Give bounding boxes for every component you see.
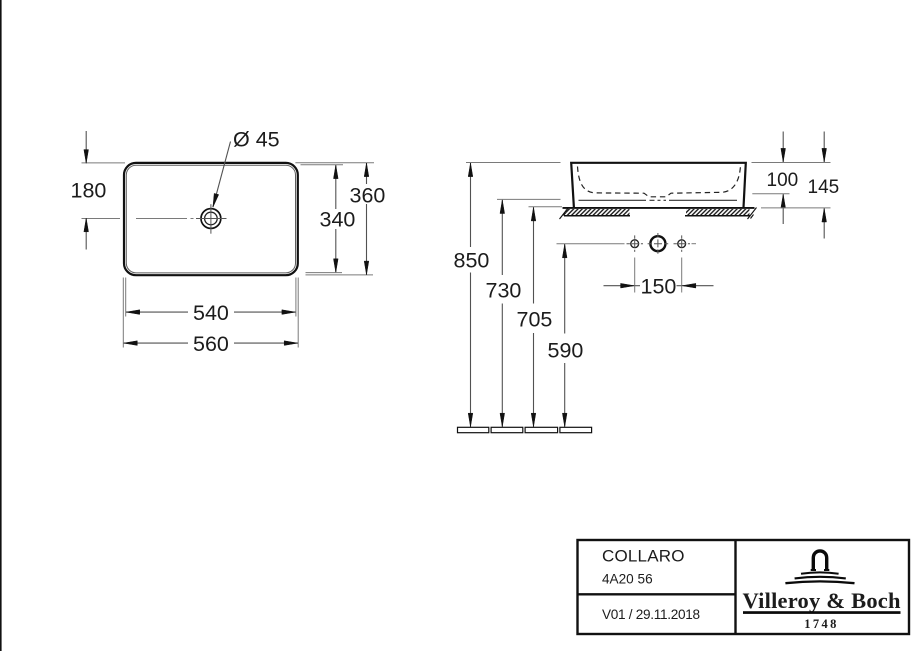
dimension 340 extension line bottom <box>306 272 343 274</box>
dimension 340 extension line top <box>301 164 344 166</box>
dimension 560 extension line right <box>297 278 299 348</box>
dimension 540 dim line left segment with arrow <box>126 311 188 313</box>
tap hole right outer dash <box>692 243 697 245</box>
dimension 150 extension line left <box>634 258 636 293</box>
drain hole inner circle <box>205 212 218 225</box>
mounting holes centerline left <box>557 243 625 245</box>
logo underline <box>743 611 901 614</box>
basin inner rim line (top view) <box>126 165 295 273</box>
dimension 100 top arrow <box>782 132 784 163</box>
svg-text:360: 360 <box>350 183 386 207</box>
title block horizontal divider <box>578 593 736 595</box>
svg-text:540: 540 <box>193 301 229 325</box>
dimension 850 dim line upper segment with arrow <box>470 163 472 247</box>
dimension 705 dim line lower segment with arrow <box>533 333 535 427</box>
dimension 150 left arrow <box>604 285 635 287</box>
tap hole center circle <box>650 236 665 251</box>
dimension 850 dim line lower segment with arrow <box>470 273 472 427</box>
dimension 150 right arrow <box>682 285 713 287</box>
drain crosshair horizontal <box>196 218 227 220</box>
tap hole left small circle <box>631 240 639 248</box>
tap hole right small circle <box>678 240 686 248</box>
title block vertical divider <box>734 540 736 634</box>
dimension 150 stub right <box>677 285 682 287</box>
svg-text:590: 590 <box>548 338 584 362</box>
dimension 145 top arrow <box>823 132 825 163</box>
Villeroy & Boch logo arch <box>813 551 826 570</box>
dimension 730 extension top <box>497 198 561 200</box>
tap hole right crosshair <box>674 235 691 252</box>
floor line segment 1 <box>458 427 489 432</box>
basin outer rim (top view) <box>124 163 298 275</box>
dimension 560 dim line right segment with arrow <box>234 342 298 344</box>
dimension 360 extension line top <box>295 162 374 164</box>
dimension 705 dim line upper segment with arrow <box>533 207 535 303</box>
svg-text:145: 145 <box>808 177 840 198</box>
dimension 145 bottom arrow <box>823 208 825 238</box>
dimension 540 extension line left <box>125 278 127 317</box>
svg-text:705: 705 <box>517 307 553 331</box>
dimension 180 top arrow <box>85 131 87 163</box>
countertop top surface line <box>563 207 755 209</box>
dimension 340 dim line lower segment with arrow <box>335 229 337 272</box>
svg-text:180: 180 <box>71 179 107 203</box>
svg-text:730: 730 <box>486 278 522 302</box>
dimension 730 dim line lower segment with arrow <box>501 304 503 427</box>
countertop hatch right <box>685 209 751 216</box>
drain crosshair vertical <box>210 204 212 234</box>
floor line segment 2 <box>491 427 523 432</box>
tap hole center crosshair <box>648 233 669 255</box>
dimension 360 dim line lower segment with arrow <box>366 204 368 275</box>
svg-text:150: 150 <box>641 275 677 299</box>
svg-text:1748: 1748 <box>804 617 839 631</box>
drain horizontal centerline long dash <box>136 218 187 220</box>
dimension 180 bottom arrow <box>85 218 87 249</box>
title block outer frame <box>578 540 910 634</box>
dimension 100 extension bottom <box>752 193 789 195</box>
basin outline (side view) <box>571 163 746 208</box>
dimension 850 extension top <box>466 162 561 164</box>
dimension 180 extension line top <box>82 162 126 164</box>
dimension 540 extension line right <box>295 278 297 317</box>
logo ripple 1 <box>801 572 839 573</box>
page left border line <box>0 0 2 651</box>
svg-text:100: 100 <box>767 170 799 191</box>
basin inner dashed contour <box>578 167 741 197</box>
countertop right cut mark <box>748 208 757 220</box>
dimension 560 extension line left <box>122 278 124 348</box>
dimension 150 extension line right <box>681 258 683 293</box>
countertop hatch left <box>564 209 630 216</box>
logo ripple 2 <box>795 577 846 579</box>
dimension 560 dim line left segment with arrow <box>124 342 188 344</box>
svg-text:340: 340 <box>320 208 356 232</box>
drain hole outer circle <box>201 209 221 229</box>
svg-text:560: 560 <box>193 332 229 356</box>
countertop left cut mark <box>560 208 569 220</box>
dimension 590 dim line lower segment with arrow <box>564 363 566 427</box>
svg-text:COLLARO: COLLARO <box>602 547 685 566</box>
dimension 730 dim line upper segment with arrow <box>501 200 503 275</box>
svg-text:V01 / 29.11.2018: V01 / 29.11.2018 <box>602 607 700 622</box>
dimension 100 extension top (shared with 145) <box>752 162 831 164</box>
floor line segment 3 <box>525 427 558 432</box>
label Ø45 leader line with arrow <box>213 142 231 208</box>
svg-text:4A20 56: 4A20 56 <box>602 571 653 586</box>
basin inner bottom centerline dashes <box>650 199 667 201</box>
dimension 705 extension top <box>529 206 563 208</box>
dimension 540 dim line right segment with arrow <box>234 311 296 313</box>
logo arch feet <box>811 569 830 571</box>
svg-text:Ø 45: Ø 45 <box>233 127 280 151</box>
svg-text:850: 850 <box>454 248 490 272</box>
dimension 590 dim line upper segment with arrow <box>564 244 566 333</box>
svg-text:Villeroy & Boch: Villeroy & Boch <box>743 588 901 613</box>
floor line segment 4 <box>560 427 592 432</box>
drain centerline dot <box>191 218 194 220</box>
dimension 340 dim line upper segment with arrow <box>335 165 337 209</box>
dimension 180 extension line bottom <box>82 218 121 220</box>
basin inner bottom edge line right <box>669 199 737 201</box>
dimension 150 stub left <box>635 285 640 287</box>
dimension 145 extension bottom <box>761 207 831 209</box>
logo ripple 3 <box>785 581 854 583</box>
dimension 100 bottom arrow <box>782 194 784 224</box>
dimension 360 dim line upper segment with arrow <box>366 163 368 184</box>
tap hole left crosshair <box>627 235 644 252</box>
dimension 360 extension line bottom <box>306 274 374 276</box>
basin inner bottom edge line left <box>579 199 647 201</box>
